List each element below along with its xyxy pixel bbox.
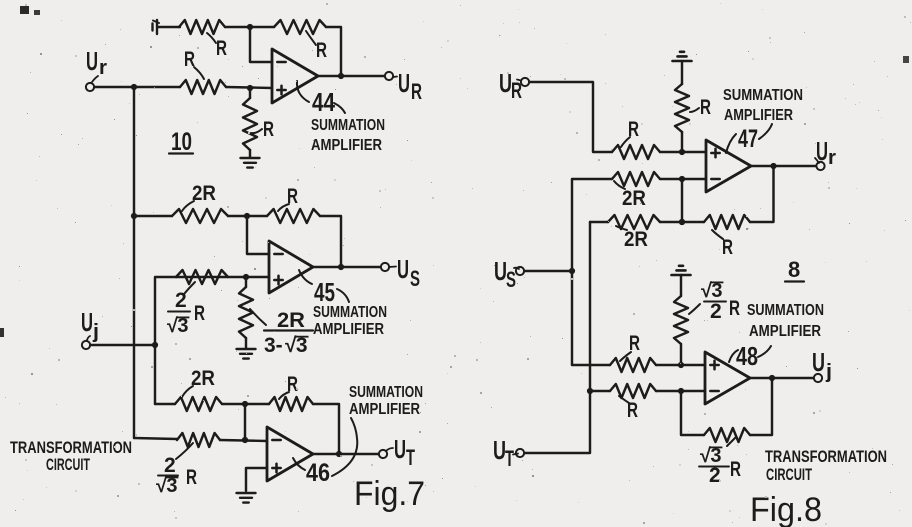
svg-text:j: j (825, 361, 832, 383)
svg-text:T: T (406, 445, 415, 470)
svg-text:2R: 2R (191, 367, 215, 390)
svg-text:CIRCUIT: CIRCUIT (766, 466, 812, 484)
svg-text:SUMMATION: SUMMATION (349, 384, 423, 401)
svg-text:2R: 2R (622, 187, 646, 210)
svg-text:3-: 3- (264, 334, 283, 357)
svg-text:AMPLIFIER: AMPLIFIER (349, 401, 420, 418)
svg-text:U: U (394, 434, 406, 464)
svg-text:SUMMATION: SUMMATION (311, 117, 385, 134)
svg-text:R: R (411, 79, 422, 104)
svg-text:U: U (81, 307, 93, 337)
svg-text:45: 45 (314, 277, 335, 307)
svg-text:U: U (86, 46, 98, 76)
svg-text:r: r (828, 147, 836, 169)
svg-text:AMPLIFIER: AMPLIFIER (313, 321, 384, 338)
svg-text:47: 47 (738, 125, 758, 153)
svg-text:2: 2 (709, 464, 721, 487)
svg-text:AMPLIFIER: AMPLIFIER (311, 137, 382, 154)
svg-text:2R: 2R (277, 309, 305, 332)
svg-text:U: U (812, 347, 825, 377)
svg-text:R: R (700, 96, 711, 119)
svg-text:44: 44 (312, 87, 335, 117)
svg-text:R: R (511, 78, 522, 103)
svg-text:TRANSFORMATION: TRANSFORMATION (10, 439, 132, 457)
svg-text:46: 46 (306, 459, 330, 487)
svg-text:R: R (730, 458, 741, 481)
svg-text:Fig.7: Fig.7 (354, 475, 425, 513)
svg-text:48: 48 (736, 341, 758, 371)
svg-text:2R: 2R (192, 182, 216, 205)
svg-text:T: T (505, 446, 514, 471)
svg-text:j: j (92, 321, 99, 343)
svg-text:R: R (186, 466, 197, 489)
svg-text:U: U (398, 68, 410, 98)
svg-text:r: r (99, 57, 107, 79)
svg-text:Fig.8: Fig.8 (750, 491, 822, 527)
svg-text:SUMMATION: SUMMATION (313, 304, 387, 321)
svg-text:SUMMATION: SUMMATION (723, 87, 803, 104)
svg-text:AMPLIFIER: AMPLIFIER (749, 323, 821, 340)
svg-text:R: R (194, 302, 205, 325)
svg-text:R: R (316, 39, 327, 62)
svg-text:U: U (397, 254, 409, 284)
svg-text:2: 2 (710, 300, 722, 323)
svg-text:AMPLIFIER: AMPLIFIER (724, 107, 793, 124)
svg-text:R: R (729, 297, 740, 320)
svg-text:10: 10 (171, 128, 192, 156)
svg-text:S: S (506, 267, 516, 292)
svg-text:2R: 2R (624, 228, 648, 251)
svg-text:CIRCUIT: CIRCUIT (46, 456, 90, 474)
svg-text:8: 8 (788, 257, 800, 282)
svg-text:S: S (410, 266, 420, 291)
svg-text:R: R (263, 118, 274, 141)
svg-text:R: R (216, 37, 227, 60)
svg-text:SUMMATION: SUMMATION (747, 302, 824, 319)
svg-text:TRANSFORMATION: TRANSFORMATION (765, 448, 887, 466)
svg-text:2: 2 (164, 454, 176, 477)
